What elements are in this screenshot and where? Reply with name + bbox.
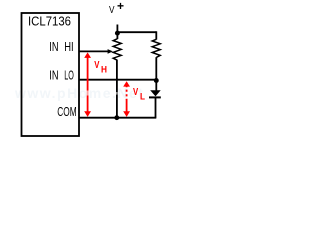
wire top rail: [117, 31, 156, 33]
svg-text:LO: LO: [64, 68, 74, 82]
diode D1 cathode bar: [149, 96, 161, 98]
node junction dot pot bottom: [114, 115, 119, 120]
svg-text:COM: COM: [57, 105, 76, 119]
resistor R2 bottom lead: [155, 57, 157, 81]
wire wash (watermark crossing VH arrow): [87, 91, 89, 96]
diode D1 anode lead: [155, 80, 157, 90]
node junction dot R2/D1: [154, 78, 159, 83]
wire V+ stem: [116, 25, 118, 34]
svg-text:IN: IN: [49, 68, 58, 82]
diode D1 triangle: [150, 90, 161, 96]
svg-text:V: V: [133, 87, 138, 98]
svg-text:HI: HI: [64, 40, 73, 54]
potentiometer R1 bottom lead: [116, 60, 118, 118]
arrow VL (red measurement arrow): [126, 85, 128, 100]
resistor R2 zigzag: [152, 39, 160, 57]
svg-text:IN: IN: [49, 40, 58, 54]
potentiometer R1 zigzag: [113, 39, 121, 61]
wire wash (watermark crossing pot lead): [116, 92, 118, 95]
wire COM pin / bottom rail: [79, 117, 157, 119]
svg-text:L: L: [140, 92, 145, 103]
wire IN HI pin / wiper: [79, 50, 109, 52]
wire IN LO pin: [79, 79, 157, 81]
op-amp U1 ICL7136 chip body: [22, 13, 80, 136]
svg-text:ICL7136: ICL7136: [28, 15, 71, 29]
arrow VH (red measurement arrow): [87, 55, 89, 113]
svg-text:V: V: [109, 4, 115, 16]
potentiometer wiper arrowhead: [108, 49, 113, 54]
diode D1 cathode lead: [155, 98, 157, 118]
svg-text:+: +: [117, 0, 124, 13]
svg-text:H: H: [101, 64, 107, 75]
potentiometer R1 top lead: [116, 32, 118, 39]
resistor R2 top lead: [155, 31, 157, 39]
svg-text:V: V: [94, 60, 99, 71]
node junction dot at V+: [115, 31, 120, 36]
